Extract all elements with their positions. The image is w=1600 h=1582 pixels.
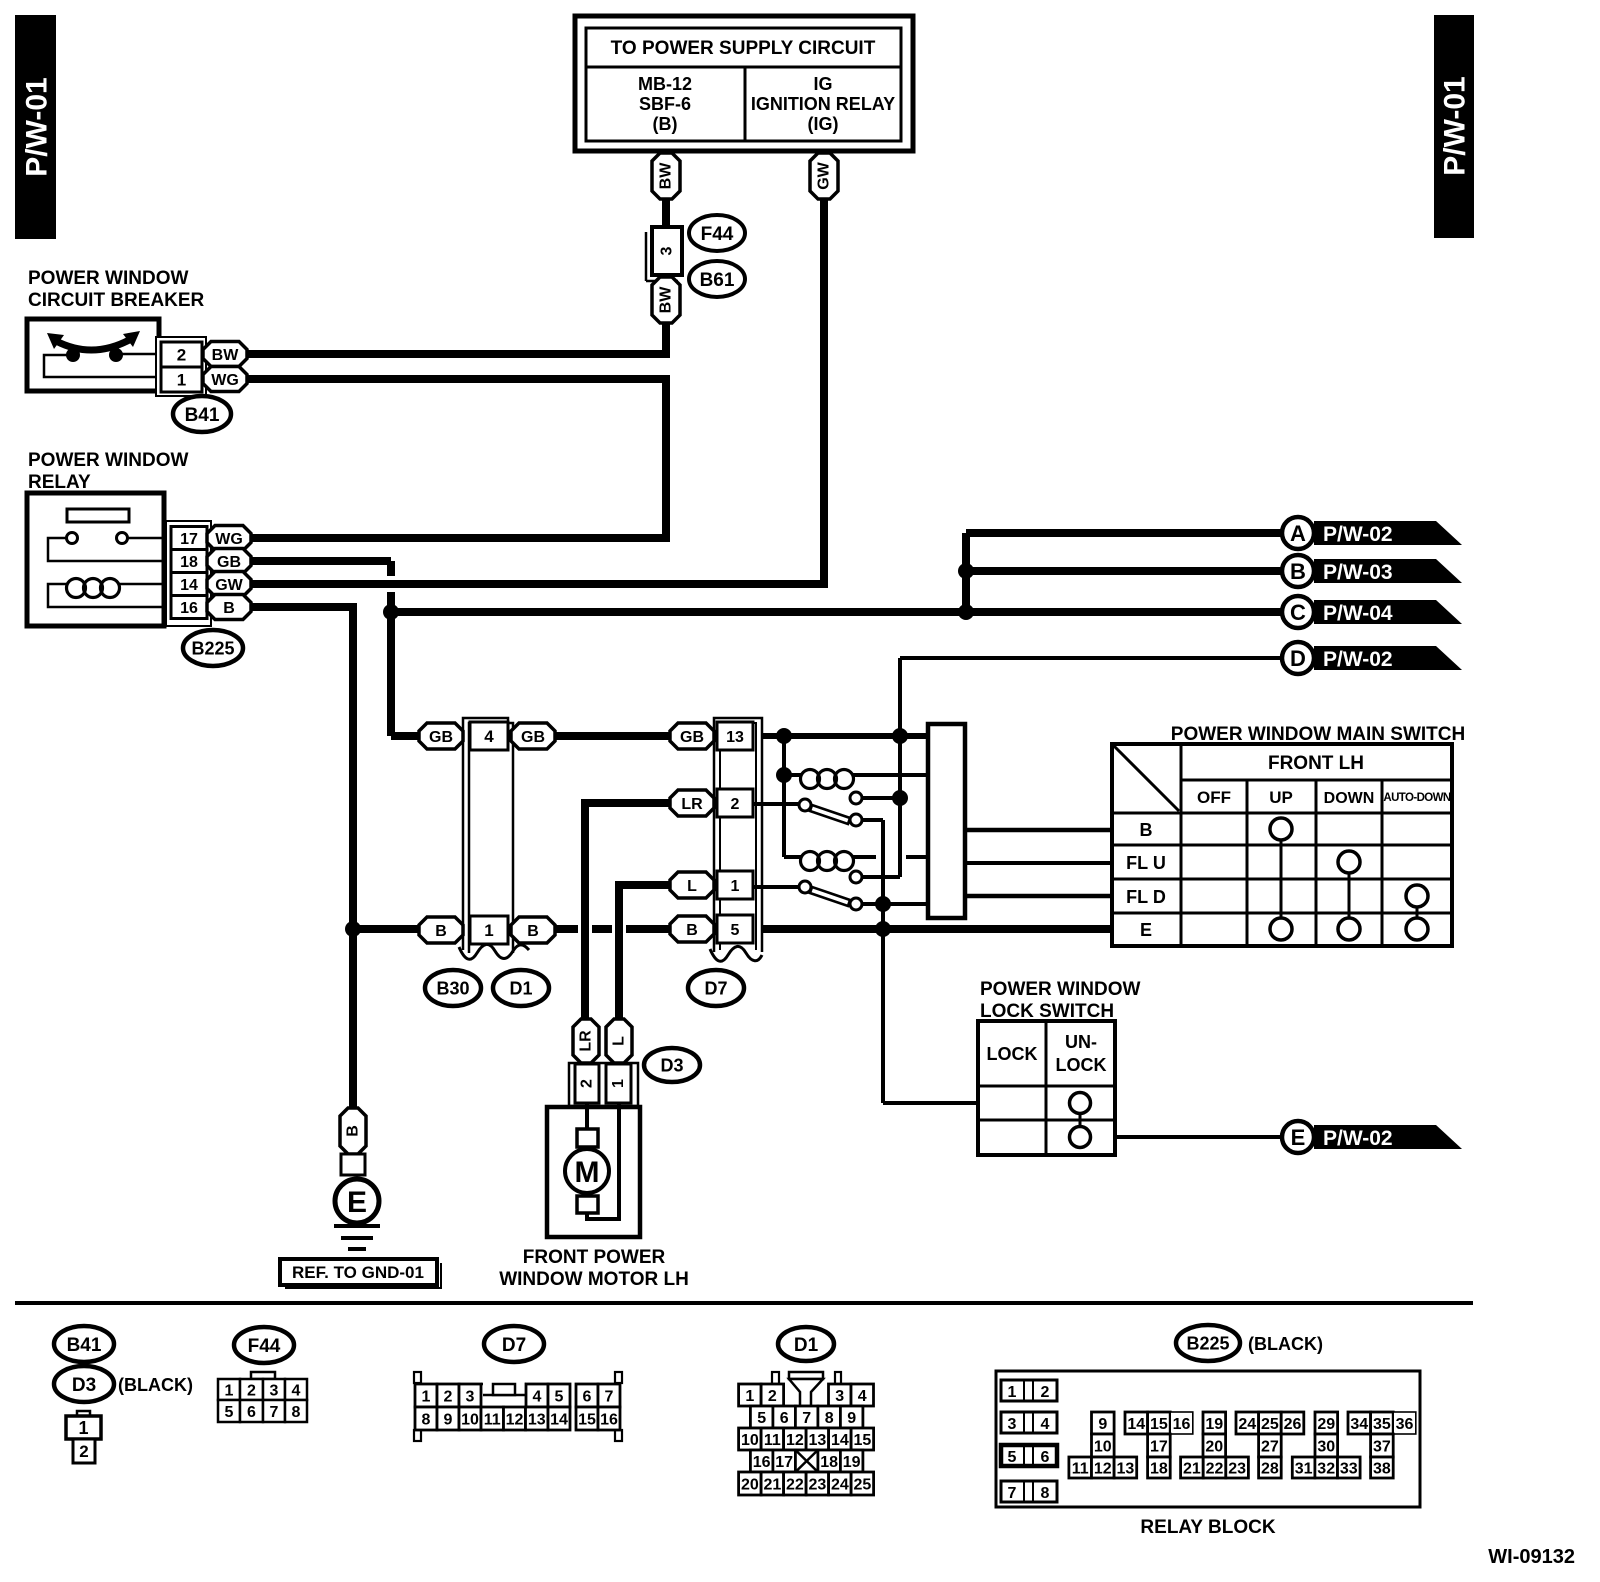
connector label D1 (legend) [778,1327,834,1361]
svg-text:E: E [347,1186,367,1219]
svg-text:DOWN: DOWN [1324,790,1375,807]
label POWER WINDOW CIRCUIT BREAKER [28,268,205,311]
connector label D1 [493,970,549,1006]
svg-text:33: 33 [1340,1460,1358,1477]
svg-text:20: 20 [1205,1438,1223,1455]
connector label B41 [173,396,231,432]
svg-text:8: 8 [292,1404,301,1421]
wire B color label (B30 side) [419,917,463,943]
connector label B41 (legend) [54,1326,114,1362]
connector label B225 (legend) [1176,1325,1323,1361]
svg-text:15: 15 [1150,1416,1168,1433]
svg-text:18: 18 [1150,1460,1168,1477]
svg-text:AUTO-DOWN: AUTO-DOWN [1383,792,1451,804]
REF. TO GND-01 box [280,1259,441,1288]
svg-text:D1: D1 [509,978,532,998]
pin 14 (relay) [171,573,207,596]
svg-text:37: 37 [1373,1438,1391,1455]
power window main switch table [1112,744,1452,946]
wire B color label (ground, vertical) [340,1108,366,1154]
svg-text:POWER WINDOW: POWER WINDOW [28,268,188,289]
svg-text:3: 3 [659,246,676,255]
svg-text:WG: WG [215,531,243,548]
svg-text:1: 1 [78,1418,88,1438]
pin 2 (D3) [575,1064,599,1103]
svg-text:16: 16 [600,1411,618,1428]
svg-text:14: 14 [180,577,198,594]
pin 16 (relay) [171,596,207,619]
svg-text:3: 3 [270,1382,279,1399]
svg-text:6: 6 [583,1388,592,1405]
svg-text:GB: GB [680,729,704,746]
svg-text:RELAY BLOCK: RELAY BLOCK [1140,1517,1275,1538]
banner D P/W-02 [1282,642,1462,674]
svg-text:14: 14 [1127,1416,1145,1433]
svg-text:WI-09132: WI-09132 [1488,1546,1575,1568]
svg-text:B: B [345,1125,362,1137]
svg-text:SBF-6: SBF-6 [639,94,691,114]
svg-text:E: E [1291,1125,1306,1150]
svg-text:GW: GW [215,577,243,594]
wire B color label (relay pin 16) [207,595,251,620]
ground point E [335,1179,379,1223]
connector B225 shell [166,521,211,626]
svg-text:D1: D1 [794,1335,819,1356]
svg-text:35: 35 [1373,1416,1391,1433]
wire WG color label (breaker pin 1) [203,367,247,392]
svg-text:13: 13 [726,729,744,746]
wire D to banner P/W-02 [900,658,1282,798]
svg-text:20: 20 [741,1476,759,1493]
connector D1 pinout [739,1372,874,1495]
svg-text:26: 26 [1284,1416,1302,1433]
svg-text:13: 13 [528,1411,546,1428]
svg-text:P/W-01: P/W-01 [21,77,54,176]
wire WG color label (relay pin 17) [207,526,251,551]
svg-text:B: B [686,922,698,939]
pin 2 (D7) [717,789,753,817]
switch S1 arm [810,805,850,824]
svg-text:WG: WG [211,372,239,389]
svg-text:GB: GB [217,554,241,571]
svg-text:5: 5 [731,922,740,939]
connector B225 relay block pinout [996,1371,1420,1507]
svg-text:4: 4 [533,1388,542,1405]
node S2/E junction [875,896,891,912]
node E bus junction [875,921,891,937]
svg-text:LR: LR [578,1030,595,1052]
power window relay box [27,493,164,626]
svg-text:8: 8 [825,1410,834,1427]
pin 5 (D7) [717,915,753,943]
connector B30/D1 shells [459,718,529,959]
svg-text:11: 11 [764,1432,781,1449]
svg-text:12: 12 [786,1432,804,1449]
svg-text:5: 5 [757,1410,766,1427]
connector F44 pinout [218,1372,307,1422]
wire GB color label (B30 side) [419,723,463,749]
svg-text:11: 11 [1072,1460,1089,1477]
label POWER WINDOW MAIN SWITCH [1171,724,1465,745]
svg-text:RELAY: RELAY [28,472,91,493]
svg-text:2: 2 [247,1382,256,1399]
power window lock switch table [978,1021,1115,1155]
wire BW color label (breaker pin 2) [203,342,247,367]
svg-text:3: 3 [835,1388,844,1405]
wire link bar to table row B [965,828,1112,833]
ground symbol [334,1226,380,1249]
svg-text:21: 21 [1183,1460,1201,1477]
svg-text:F44: F44 [701,224,734,245]
fuse 3 (F44/B61 junction) [646,227,682,281]
relay coil [48,579,166,608]
wire link bar to table row FL U [965,861,1112,865]
svg-text:B: B [527,923,539,940]
banner E P/W-02 [1282,1121,1462,1153]
svg-text:IGNITION RELAY: IGNITION RELAY [751,94,895,114]
svg-text:POWER WINDOW: POWER WINDOW [980,979,1140,1000]
connector D7 shell [710,718,762,961]
ground terminal [341,1154,365,1175]
svg-text:2: 2 [444,1388,453,1405]
svg-text:2: 2 [1041,1384,1050,1401]
banner A P/W-02 [1282,517,1462,549]
svg-text:12: 12 [1094,1460,1112,1477]
svg-text:9: 9 [847,1410,856,1427]
connector D7 pinout [414,1372,622,1441]
wire E bus vertical to lock switch [883,904,978,1103]
wire LR color label (D3, vertical) [573,1019,599,1063]
svg-text:POWER WINDOW: POWER WINDOW [28,450,188,471]
wire S1 up contact to D node [862,796,900,800]
svg-text:13: 13 [1117,1460,1135,1477]
pin 18 (relay) [171,550,207,573]
svg-text:C: C [1290,600,1306,625]
pin 1 (B30/D1) [470,916,508,944]
svg-text:WINDOW MOTOR LH: WINDOW MOTOR LH [499,1269,689,1290]
svg-text:GB: GB [521,729,545,746]
svg-text:7: 7 [1008,1485,1017,1502]
connector label D3 (legend) [54,1366,193,1402]
svg-text:4: 4 [292,1382,301,1399]
connector label F44 (legend) [234,1327,294,1363]
wire WG circuit breaker to relay pin 17 [248,379,666,538]
svg-text:28: 28 [1261,1460,1279,1477]
svg-text:UN-: UN- [1065,1032,1097,1052]
wire B color label (D1 side) [511,917,555,943]
svg-text:2: 2 [768,1388,777,1405]
switch S1 throw contact down [850,814,862,826]
wire BW fuse to circuit breaker [247,323,666,354]
connector label D3 [644,1048,700,1082]
svg-text:27: 27 [1261,1438,1279,1455]
svg-text:BW: BW [658,286,675,314]
svg-text:L: L [611,1036,628,1046]
banner B P/W-03 [1282,555,1462,587]
front power window motor box [547,1107,640,1237]
svg-text:5: 5 [1008,1449,1017,1466]
svg-text:(BLACK): (BLACK) [118,1375,193,1395]
node A/B junction [958,563,974,579]
svg-text:16: 16 [180,600,198,617]
svg-text:10: 10 [1094,1438,1112,1455]
svg-text:3: 3 [466,1388,475,1405]
svg-text:IG: IG [813,74,832,94]
svg-text:10: 10 [461,1411,479,1428]
svg-text:GW: GW [816,161,833,189]
node GB switch junction 2 [892,728,908,744]
wire A corner vertical [962,533,970,612]
svg-text:12: 12 [506,1411,524,1428]
svg-text:2: 2 [79,1442,88,1461]
svg-text:1: 1 [422,1388,431,1405]
switch S1 pivot [799,799,811,811]
svg-text:6: 6 [247,1404,256,1421]
svg-text:P/W-01: P/W-01 [1439,76,1472,175]
svg-text:1: 1 [484,921,493,940]
connector label D7 [688,970,744,1006]
svg-text:CIRCUIT BREAKER: CIRCUIT BREAKER [28,290,205,311]
svg-text:2: 2 [177,346,186,365]
switch S1 throw contact up [850,792,862,804]
node GB/PW-04 junction [383,604,399,620]
switch position circles [1270,818,1428,940]
connector label B30 [425,970,481,1006]
wire GB bus to main switch [391,732,928,740]
connector B41 shell [156,337,206,396]
svg-text:D: D [1290,646,1306,671]
wire B to banner P/W-03 [966,567,1282,575]
svg-text:FRONT LH: FRONT LH [1268,753,1364,774]
wire BW color label (below fuse, vertical) [652,277,680,323]
svg-text:17: 17 [1150,1438,1168,1455]
connector label F44 [689,215,745,251]
node B bus junction [345,921,361,937]
svg-text:11: 11 [484,1411,501,1428]
svg-text:5: 5 [225,1404,234,1421]
svg-text:25: 25 [853,1476,871,1493]
svg-text:15: 15 [578,1411,596,1428]
node A/C junction [958,604,974,620]
svg-text:M: M [575,1156,600,1189]
circuit breaker box [27,319,159,391]
svg-text:D7: D7 [704,978,727,998]
svg-text:1: 1 [177,371,186,390]
page label bar P/W-01 (right) [1434,15,1474,238]
wire L color label (D3, vertical) [606,1019,632,1063]
svg-text:(BLACK): (BLACK) [1248,1334,1323,1354]
label POWER WINDOW RELAY [28,450,188,493]
svg-text:29: 29 [1317,1416,1335,1433]
svg-text:4: 4 [484,727,494,746]
pin 1 (circuit breaker) [161,367,202,392]
svg-text:FRONT POWER: FRONT POWER [523,1247,666,1268]
svg-text:8: 8 [422,1411,431,1428]
svg-text:2: 2 [731,796,740,813]
svg-text:19: 19 [843,1454,861,1471]
wire GB color label (D7 pin 13) [670,723,714,749]
svg-text:3: 3 [1008,1416,1017,1433]
lock switch circles [1070,1093,1091,1148]
svg-text:21: 21 [763,1476,781,1493]
svg-text:F44: F44 [248,1336,281,1357]
wire GW color label (relay pin 14) [207,572,251,597]
svg-text:B225: B225 [191,638,234,658]
svg-text:7: 7 [270,1404,279,1421]
wire LR D7 pin 2 to D3 pin 2 [585,803,670,1019]
svg-text:5: 5 [555,1388,564,1405]
label POWER WINDOW LOCK SWITCH [980,979,1140,1022]
svg-text:18: 18 [820,1454,838,1471]
relay contacts [48,533,166,562]
wire coil feed vertical [782,736,786,857]
page label bar P/W-01 (left) [15,15,56,239]
svg-text:L: L [687,878,697,895]
wire A to banner P/W-02 [966,529,1282,537]
svg-text:B41: B41 [185,405,220,426]
wire S2 down contact to link bar [862,902,928,906]
svg-text:16: 16 [753,1454,771,1471]
svg-text:P/W-02: P/W-02 [1323,648,1393,671]
wire GB color label (D1 side) [511,723,555,749]
wire link bar to table row FL D [965,894,1112,899]
svg-text:D3: D3 [660,1055,683,1075]
relay armature bar [67,509,129,522]
svg-text:LOCK SWITCH: LOCK SWITCH [980,1001,1114,1022]
pin 2 (circuit breaker) [161,342,202,367]
wire GB relay pin 18 down to door harness [251,561,419,736]
svg-text:19: 19 [1205,1416,1223,1433]
wire LR color label (D7 pin 2) [670,790,714,816]
wire BW color label (supply, vertical) [652,153,680,199]
connector label D7 (legend) [484,1326,544,1362]
svg-text:B: B [1140,820,1153,840]
motor brushes [577,1129,598,1213]
svg-text:LOCK: LOCK [1056,1055,1107,1075]
svg-text:(B): (B) [653,114,678,134]
svg-text:10: 10 [741,1432,759,1449]
svg-text:8: 8 [1041,1485,1050,1502]
svg-text:6: 6 [780,1410,789,1427]
svg-text:B61: B61 [700,270,735,291]
connector D3 pinout [66,1411,101,1463]
switch S2 throw contact up [850,871,862,883]
label WI-09132 [1488,1546,1575,1568]
wire S1 down contact to E bus [862,820,883,904]
svg-text:E: E [1140,920,1152,940]
svg-text:34: 34 [1350,1416,1368,1433]
svg-text:23: 23 [1228,1460,1246,1477]
svg-text:9: 9 [1098,1416,1107,1433]
connector label B61 [689,261,745,297]
svg-text:1: 1 [1008,1384,1017,1401]
svg-text:BW: BW [212,347,240,364]
wire GW color label (supply, vertical) [810,153,838,199]
pin 1 (D7) [717,871,753,899]
banner C P/W-04 [1282,596,1462,628]
switch link bar [928,724,965,918]
svg-text:4: 4 [1041,1416,1050,1433]
svg-text:D7: D7 [502,1335,526,1356]
wire BW from supply to fuse [662,199,670,229]
svg-text:MB-12: MB-12 [638,74,692,94]
svg-text:30: 30 [1317,1438,1335,1455]
svg-text:24: 24 [1238,1416,1256,1433]
svg-text:16: 16 [1173,1416,1191,1433]
svg-text:7: 7 [605,1388,614,1405]
wire L color label (D7 pin 1) [670,872,714,898]
svg-text:31: 31 [1295,1460,1313,1477]
svg-text:17: 17 [180,531,198,548]
pin 1 (D3) [606,1064,631,1103]
svg-text:BW: BW [658,162,675,190]
svg-text:P/W-03: P/W-03 [1323,561,1393,584]
svg-text:24: 24 [831,1476,849,1493]
svg-text:B225: B225 [1186,1333,1229,1353]
svg-text:14: 14 [550,1411,568,1428]
svg-text:UP: UP [1269,788,1293,807]
svg-text:B: B [435,923,447,940]
node S1/D junction [892,790,908,806]
svg-text:(IG): (IG) [808,114,839,134]
power supply circuit box [575,16,913,151]
svg-text:B: B [223,600,235,617]
svg-text:1: 1 [225,1382,234,1399]
svg-text:22: 22 [786,1476,804,1493]
svg-text:17: 17 [775,1454,793,1471]
switch S2 pivot [799,881,811,893]
svg-text:38: 38 [1373,1460,1391,1477]
label FRONT POWER WINDOW MOTOR LH [499,1247,689,1290]
svg-text:D3: D3 [72,1375,96,1396]
svg-text:1: 1 [610,1079,627,1088]
pin 4 (B30/D1) [470,722,508,750]
svg-text:25: 25 [1261,1416,1279,1433]
wire GB color label (relay pin 18) [207,549,251,574]
switch S2 throw contact down [850,898,862,910]
svg-text:LR: LR [681,796,703,813]
circuit breaker bimetal symbol [44,331,161,377]
motor internal wiring [587,1103,619,1219]
svg-text:P/W-04: P/W-04 [1323,602,1393,625]
svg-text:9: 9 [444,1411,453,1428]
wire B relay pin 16 down to ground [251,607,353,1108]
relay coil K1 (main switch up) [784,770,928,789]
connector D3 shell [569,1063,638,1106]
svg-text:18: 18 [180,554,198,571]
svg-text:14: 14 [831,1432,849,1449]
relay coil K2 (main switch down) [784,852,928,871]
node coil feed junction [776,767,792,783]
svg-text:32: 32 [1317,1460,1335,1477]
node GB switch junction 1 [776,728,792,744]
svg-text:6: 6 [1041,1449,1050,1466]
svg-text:B41: B41 [67,1335,102,1356]
svg-text:36: 36 [1396,1416,1414,1433]
svg-text:REF. TO GND-01: REF. TO GND-01 [292,1263,424,1282]
wire LR pivot feed [753,802,799,806]
wire D node to S2 up contact [862,798,900,877]
svg-text:TO POWER SUPPLY CIRCUIT: TO POWER SUPPLY CIRCUIT [611,38,876,59]
svg-text:POWER WINDOW MAIN SWITCH: POWER WINDOW MAIN SWITCH [1171,724,1465,745]
wire L D7 pin 1 to D3 pin 1 [619,885,670,1019]
svg-text:22: 22 [1206,1460,1224,1477]
svg-text:P/W-02: P/W-02 [1323,523,1393,546]
separator line [15,1301,1473,1305]
svg-text:1: 1 [745,1388,754,1405]
wire lock switch to banner E [1115,1135,1282,1139]
svg-text:GB: GB [429,729,453,746]
